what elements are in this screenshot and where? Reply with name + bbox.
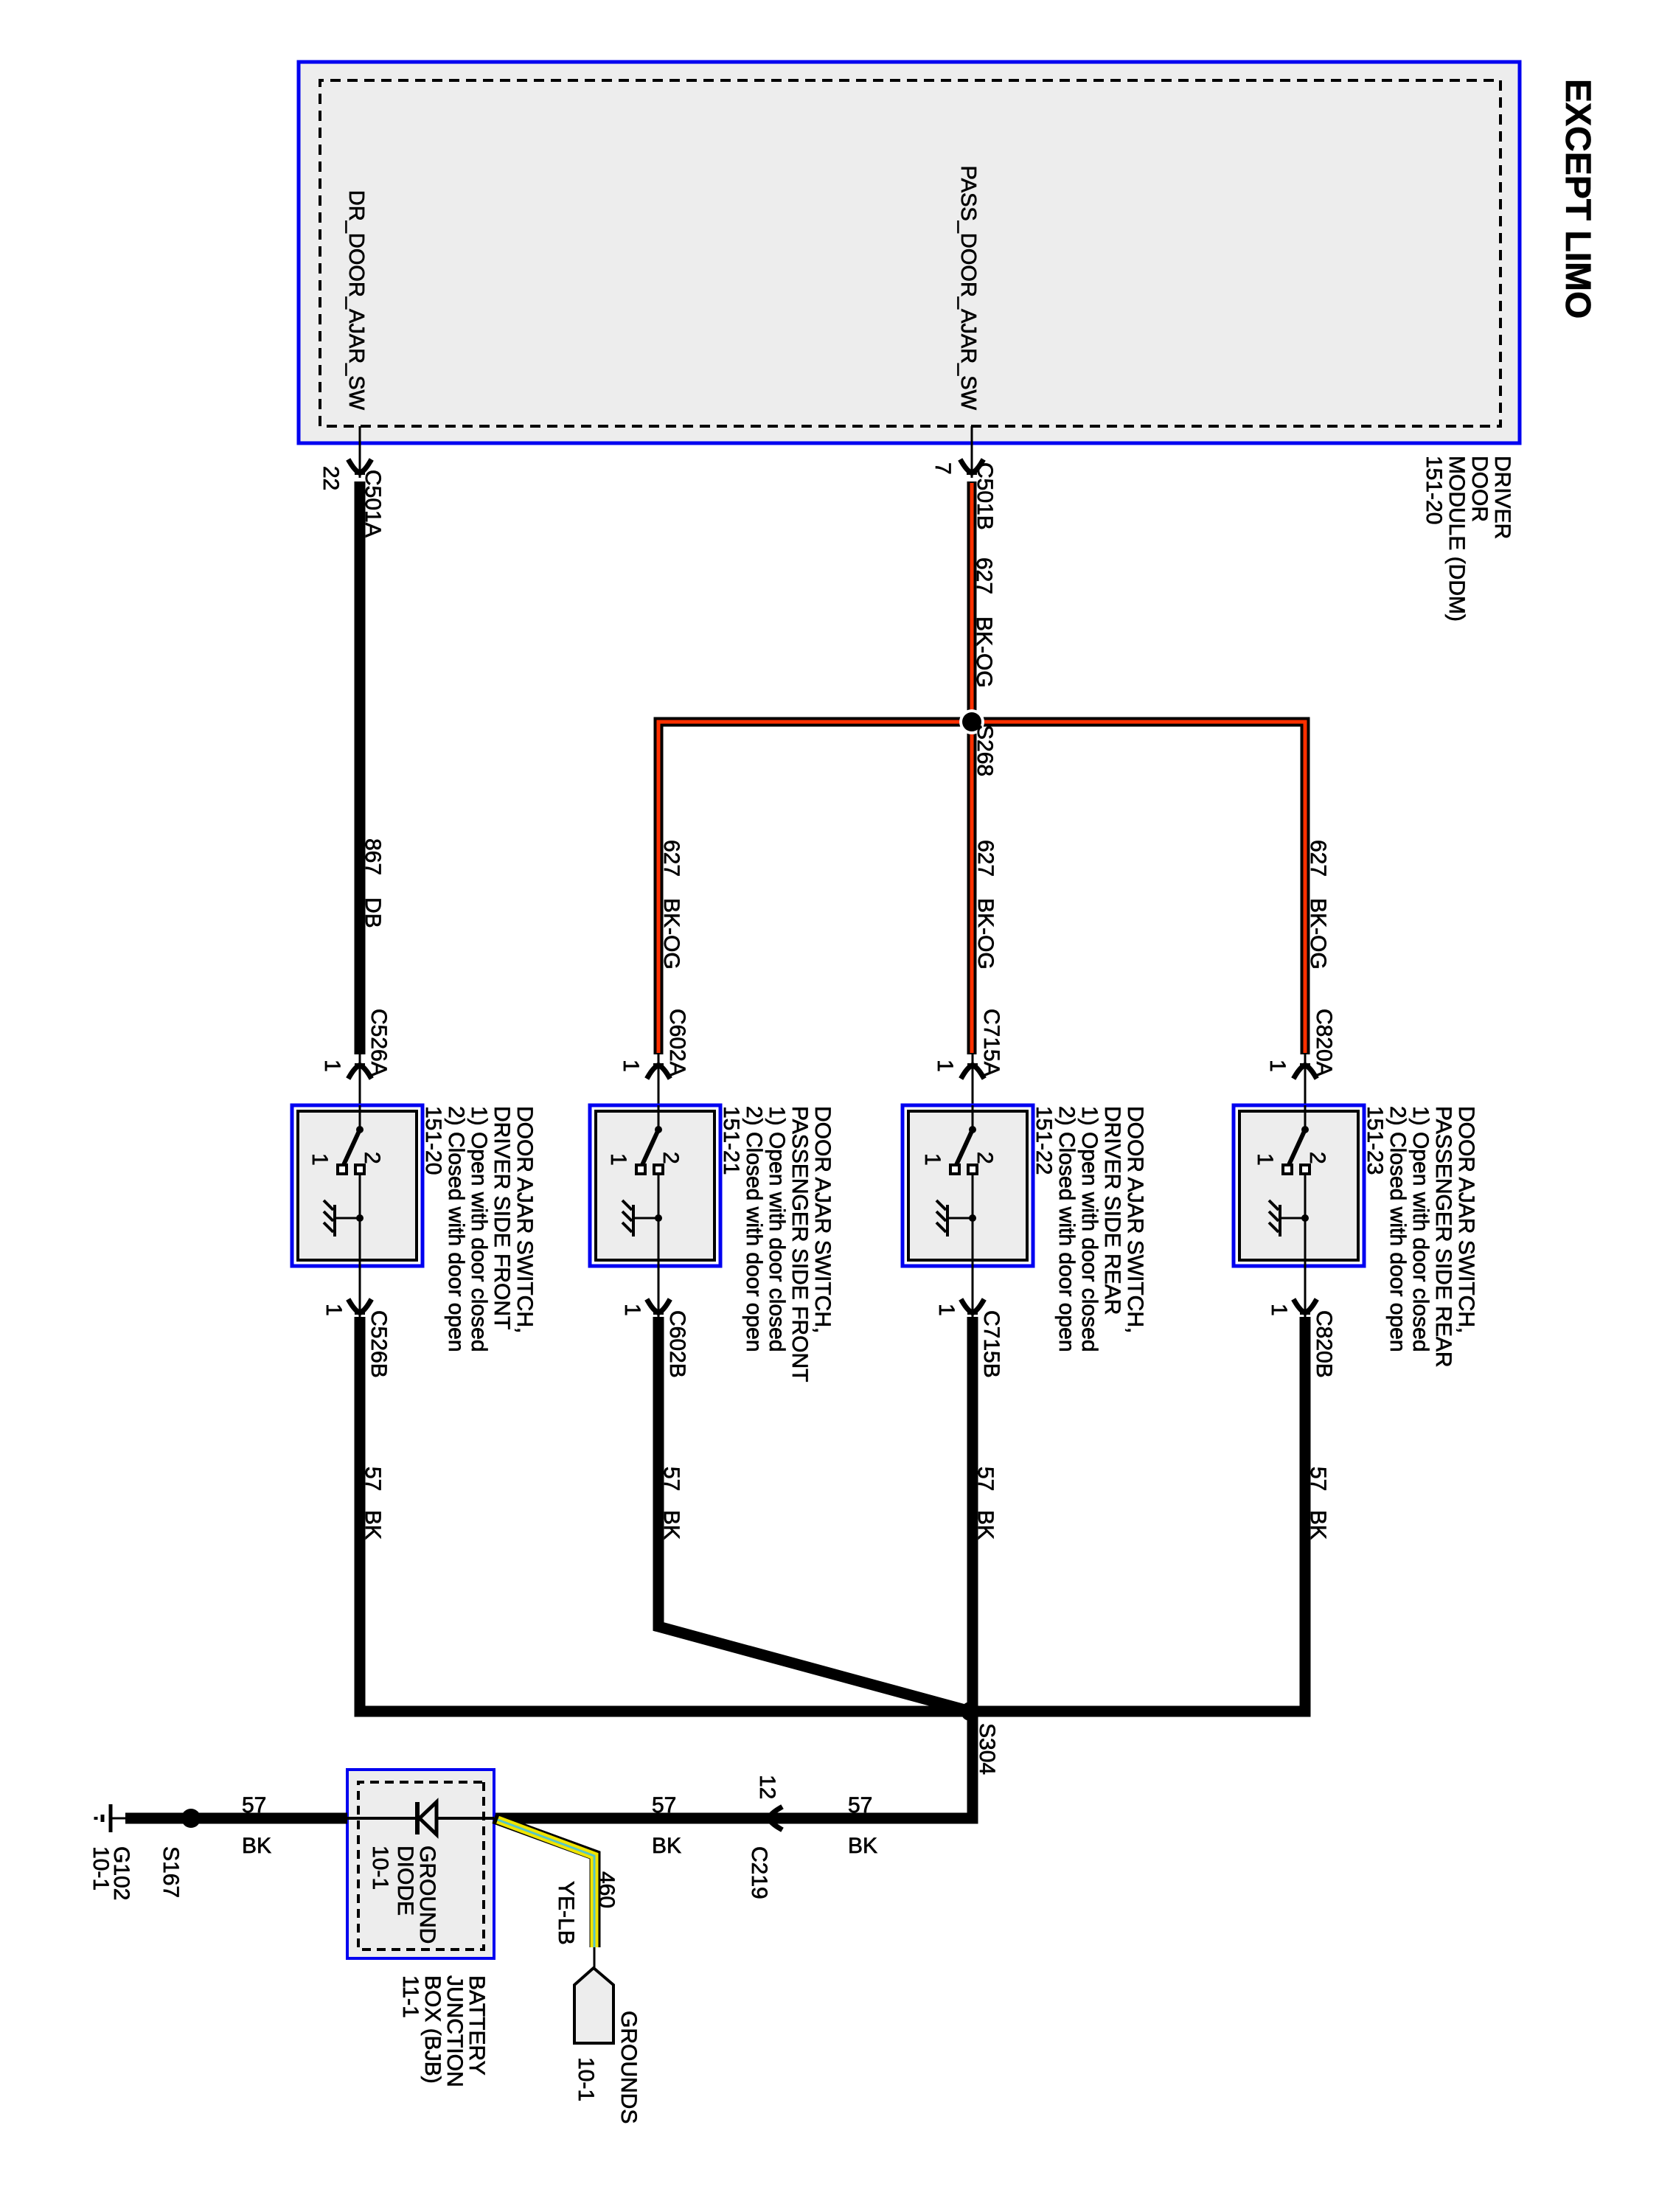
svg-text:C820B: C820B <box>1312 1310 1336 1378</box>
wire 57 BK below diode box to ground <box>125 1813 347 1824</box>
svg-text:57: 57 <box>659 1467 684 1491</box>
thin lead into switch 4 <box>1304 1054 1307 1105</box>
svg-text:C219: C219 <box>747 1846 771 1899</box>
svg-text:DOOR: DOOR <box>1467 456 1492 522</box>
svg-text:GROUND: GROUND <box>415 1846 439 1944</box>
svg-text:DR_DOOR_AJAR_SW: DR_DOOR_AJAR_SW <box>344 190 368 411</box>
wire stub from DDM pin 7 <box>971 426 973 478</box>
diode label GROUND DIODE 10-1 <box>368 1846 439 1944</box>
splice S167 <box>181 1809 201 1828</box>
svg-text:BK: BK <box>848 1834 877 1858</box>
svg-text:57: 57 <box>361 1467 385 1491</box>
svg-text:2) Closed with door open: 2) Closed with door open <box>742 1106 766 1352</box>
svg-text:1) Open with door closed: 1) Open with door closed <box>1408 1106 1433 1352</box>
module DDM box <box>299 62 1520 443</box>
svg-text:JUNCTION: JUNCTION <box>442 1975 467 2087</box>
svg-text:151-20: 151-20 <box>421 1106 445 1175</box>
ground label G102 10-1 <box>88 1846 133 1900</box>
thin lead into switch 1 <box>359 1054 361 1105</box>
svg-text:S304: S304 <box>975 1723 999 1775</box>
svg-text:57: 57 <box>242 1793 266 1818</box>
switch SW1 text DOOR AJAR SWITCH, DRIVER SIDE FRONT <box>421 1106 537 1352</box>
svg-text:1: 1 <box>1253 1153 1277 1166</box>
switch SW4 passenger side rear box <box>1234 1105 1364 1266</box>
wire 627 BK-OG branch to passenger front switch <box>658 722 972 1054</box>
svg-text:PASSENGER SIDE FRONT: PASSENGER SIDE FRONT <box>787 1106 812 1382</box>
splice S268 <box>959 709 984 734</box>
splice S304 <box>961 1702 980 1721</box>
svg-text:BK: BK <box>659 1510 684 1540</box>
svg-text:C715B: C715B <box>979 1310 1004 1378</box>
svg-text:1) Open with door closed: 1) Open with door closed <box>467 1106 491 1352</box>
svg-text:YE-LB: YE-LB <box>554 1881 578 1945</box>
svg-text:627: 627 <box>972 557 996 594</box>
svg-text:57: 57 <box>973 1467 998 1491</box>
svg-text:1) Open with door closed: 1) Open with door closed <box>765 1106 789 1352</box>
connector arrow C526B <box>349 1301 370 1312</box>
thin lead to grounds symbol <box>594 1947 596 1970</box>
connector arrow C501B <box>961 462 982 473</box>
svg-text:22: 22 <box>319 466 343 490</box>
svg-text:1: 1 <box>307 1153 332 1166</box>
svg-text:10-1: 10-1 <box>88 1846 113 1891</box>
svg-text:460: 460 <box>594 1871 619 1908</box>
svg-text:PASS_DOOR_AJAR_SW: PASS_DOOR_AJAR_SW <box>956 166 980 411</box>
svg-text:BK-OG: BK-OG <box>973 898 998 970</box>
svg-text:C602A: C602A <box>665 1009 689 1077</box>
switch SW3 driver side rear box <box>902 1105 1033 1266</box>
svg-text:PASSENGER SIDE REAR: PASSENGER SIDE REAR <box>1431 1106 1455 1368</box>
svg-text:DOOR AJAR SWITCH,: DOOR AJAR SWITCH, <box>1454 1106 1478 1333</box>
battery junction box / ground diode box <box>347 1770 494 1958</box>
wire 57 BK from switch 4 to S304 collector <box>970 1317 1305 1711</box>
svg-text:DRIVER: DRIVER <box>1490 456 1514 539</box>
svg-text:2: 2 <box>658 1152 683 1164</box>
svg-text:EXCEPT LIMO: EXCEPT LIMO <box>1558 79 1597 319</box>
svg-text:1) Open with door closed: 1) Open with door closed <box>1077 1106 1102 1352</box>
diode D1 <box>417 1802 437 1834</box>
svg-text:DOOR AJAR SWITCH,: DOOR AJAR SWITCH, <box>1123 1106 1147 1333</box>
off-page connector GROUNDS <box>574 1968 613 2043</box>
svg-text:MODULE (DDM): MODULE (DDM) <box>1444 456 1469 622</box>
ground G102 <box>96 1804 125 1832</box>
svg-text:1: 1 <box>1267 1304 1291 1316</box>
svg-text:1: 1 <box>321 1304 346 1316</box>
svg-text:DOOR AJAR SWITCH,: DOOR AJAR SWITCH, <box>512 1106 537 1333</box>
svg-text:1: 1 <box>1265 1060 1290 1072</box>
svg-text:627: 627 <box>659 840 684 877</box>
switch SW4 text DOOR AJAR SWITCH, PASSENGER SIDE REAR <box>1363 1106 1478 1368</box>
wire 57 BK from switch 1 to S304 collector <box>360 1317 970 1711</box>
switch SW2 text DOOR AJAR SWITCH, PASSENGER SIDE FRONT <box>719 1106 835 1382</box>
svg-text:1: 1 <box>933 1060 957 1072</box>
connector arrow C820B <box>1295 1301 1315 1312</box>
connector arrow C715B <box>962 1301 983 1312</box>
svg-text:627: 627 <box>973 840 998 877</box>
svg-text:2) Closed with door open: 2) Closed with door open <box>444 1106 468 1352</box>
thin lead into switch 3 <box>972 1054 974 1105</box>
svg-text:2: 2 <box>360 1152 384 1164</box>
svg-text:2) Closed with door open: 2) Closed with door open <box>1385 1106 1410 1352</box>
svg-text:DOOR AJAR SWITCH,: DOOR AJAR SWITCH, <box>810 1106 835 1333</box>
svg-text:DIODE: DIODE <box>393 1846 417 1916</box>
svg-text:12: 12 <box>755 1775 779 1799</box>
svg-text:1: 1 <box>920 1153 945 1166</box>
svg-text:BK-OG: BK-OG <box>972 616 996 688</box>
svg-text:57: 57 <box>652 1793 676 1818</box>
svg-text:BOX (BJB): BOX (BJB) <box>420 1975 445 2084</box>
svg-text:57: 57 <box>1306 1467 1330 1491</box>
svg-text:627: 627 <box>1306 840 1330 877</box>
wire 627 BK-OG main segment <box>967 481 977 1054</box>
svg-text:C602B: C602B <box>665 1310 689 1378</box>
wire 460 YE-LB to grounds <box>494 1818 595 1947</box>
connector arrow C602A <box>648 1065 669 1077</box>
connector arrow C219 <box>769 1808 780 1829</box>
svg-text:BK-OG: BK-OG <box>1306 898 1330 970</box>
switch SW3 text DOOR AJAR SWITCH, DRIVER SIDE REAR <box>1032 1106 1147 1352</box>
svg-text:C715A: C715A <box>979 1009 1004 1077</box>
svg-text:DB: DB <box>361 897 385 928</box>
svg-text:151-20: 151-20 <box>1422 456 1446 524</box>
svg-text:1: 1 <box>320 1060 344 1072</box>
module label DRIVER DOOR MODULE (DDM) 151-20 <box>1422 456 1514 622</box>
svg-text:BK: BK <box>361 1510 385 1540</box>
svg-text:2: 2 <box>1305 1152 1329 1164</box>
svg-text:1: 1 <box>606 1153 630 1166</box>
svg-text:C526B: C526B <box>366 1310 391 1378</box>
svg-text:1: 1 <box>619 1060 643 1072</box>
wire 57 BK from switch 3 to S304 <box>967 1317 978 1707</box>
svg-text:BATTERY: BATTERY <box>465 1975 489 2076</box>
svg-text:BK: BK <box>242 1834 271 1858</box>
wire stub from DDM pin 22 <box>359 426 361 478</box>
wire 57 BK from switch 2 (diagonal) to S304 <box>658 1317 970 1711</box>
wire 57 BK from S304 to ground diode <box>494 1711 973 1818</box>
svg-text:10-1: 10-1 <box>574 2057 598 2101</box>
svg-text:DRIVER SIDE FRONT: DRIVER SIDE FRONT <box>490 1106 514 1329</box>
svg-text:BK: BK <box>973 1510 998 1540</box>
svg-text:10-1: 10-1 <box>368 1846 392 1890</box>
svg-text:C820A: C820A <box>1312 1009 1336 1077</box>
svg-text:1: 1 <box>620 1304 644 1316</box>
BJB label BATTERY JUNCTION BOX (BJB) 11-1 <box>398 1975 489 2087</box>
thin lead into switch 2 <box>658 1054 660 1105</box>
connector arrow C526A <box>349 1065 370 1077</box>
svg-text:C526A: C526A <box>366 1009 391 1077</box>
svg-text:BK: BK <box>652 1834 681 1858</box>
svg-text:151-23: 151-23 <box>1363 1106 1387 1175</box>
svg-text:S268: S268 <box>973 725 997 776</box>
connector arrow C820A <box>1295 1065 1315 1077</box>
wire 627 BK-OG branch to passenger rear switch <box>972 722 1305 1054</box>
connector arrow C715A <box>962 1065 983 1077</box>
wire through diode box <box>347 1817 494 1820</box>
svg-text:57: 57 <box>848 1793 872 1818</box>
switch SW2 passenger side front box <box>590 1105 720 1266</box>
svg-text:S167: S167 <box>159 1846 183 1898</box>
svg-text:7: 7 <box>931 462 955 475</box>
thin lead out of switch 1 <box>359 1266 361 1317</box>
svg-text:2: 2 <box>973 1152 997 1164</box>
svg-text:11-1: 11-1 <box>398 1975 422 2018</box>
svg-text:GROUNDS: GROUNDS <box>616 2011 641 2124</box>
svg-text:2) Closed with door open: 2) Closed with door open <box>1054 1106 1079 1352</box>
svg-text:BK-OG: BK-OG <box>659 898 684 970</box>
thin lead out of switch 4 <box>1304 1266 1307 1317</box>
svg-text:151-22: 151-22 <box>1032 1106 1056 1175</box>
switch SW1 driver side front box <box>292 1105 422 1266</box>
thin lead out of switch 2 <box>658 1266 660 1317</box>
svg-text:DRIVER SIDE REAR: DRIVER SIDE REAR <box>1100 1106 1124 1315</box>
svg-text:867: 867 <box>361 838 385 875</box>
svg-text:BK: BK <box>1306 1510 1330 1540</box>
connector arrow C501A <box>349 462 370 473</box>
thin lead out of switch 3 <box>972 1266 974 1317</box>
svg-text:1: 1 <box>934 1304 959 1316</box>
svg-text:151-21: 151-21 <box>719 1106 743 1175</box>
connector arrow C602B <box>648 1301 669 1312</box>
wire 867 DB (DDM to driver front switch) <box>355 481 366 1054</box>
